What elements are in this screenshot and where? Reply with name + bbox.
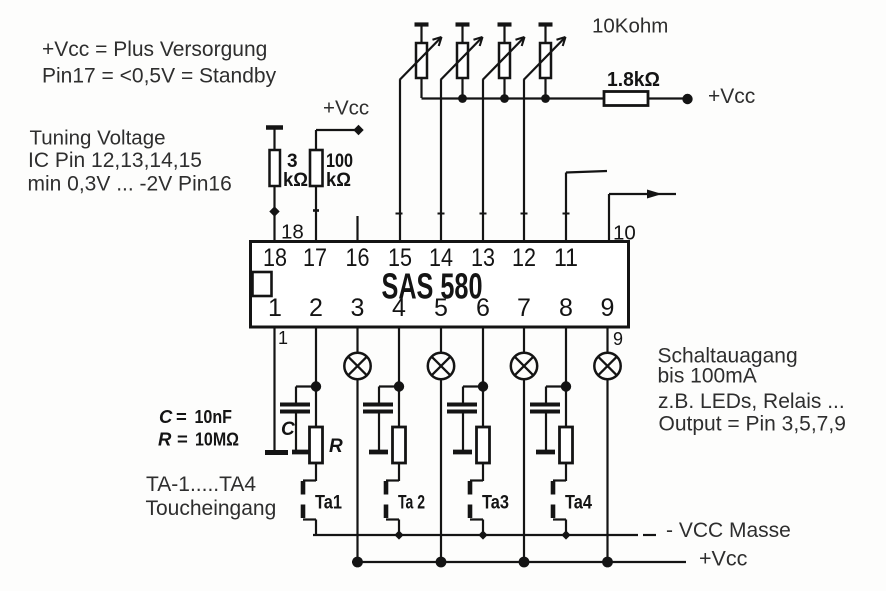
svg-text:18: 18 (281, 221, 304, 244)
svg-text:C: C (281, 419, 295, 440)
svg-text:+Vcc = Plus Versorgung: +Vcc = Plus Versorgung (42, 38, 267, 61)
svg-text:Output = Pin 3,5,7,9: Output = Pin 3,5,7,9 (659, 413, 846, 436)
svg-text:bis 100mA: bis 100mA (658, 365, 757, 388)
svg-text:9: 9 (613, 329, 623, 349)
svg-text:+Vcc: +Vcc (699, 547, 748, 571)
svg-text:11: 11 (554, 244, 578, 272)
svg-text:17: 17 (303, 244, 327, 272)
svg-text:kΩ: kΩ (283, 170, 308, 191)
svg-text:5: 5 (434, 294, 448, 322)
svg-text:1: 1 (278, 328, 288, 348)
svg-text:R=10MΩ: R=10MΩ (158, 429, 239, 450)
svg-text:+Vcc: +Vcc (708, 85, 755, 108)
svg-text:8: 8 (559, 294, 573, 322)
svg-text:9: 9 (601, 294, 615, 322)
svg-text:3: 3 (351, 294, 365, 322)
svg-text:16: 16 (346, 244, 370, 272)
svg-text:10: 10 (613, 222, 636, 245)
svg-text:Ta 2: Ta 2 (398, 492, 425, 514)
svg-text:7: 7 (517, 294, 531, 322)
svg-text:1: 1 (268, 294, 282, 322)
svg-text:100: 100 (326, 151, 353, 172)
svg-text:10Kohm: 10Kohm (592, 14, 668, 37)
svg-text:Ta4: Ta4 (565, 492, 592, 514)
svg-text:1.8kΩ: 1.8kΩ (607, 68, 660, 91)
svg-text:TA-1.....TA4: TA-1.....TA4 (146, 473, 256, 496)
svg-text:- VCC Masse: - VCC Masse (666, 519, 791, 542)
svg-text:Tuning Voltage: Tuning Voltage (30, 127, 166, 150)
svg-text:13: 13 (471, 244, 495, 272)
svg-text:IC Pin 12,13,14,15: IC Pin 12,13,14,15 (28, 149, 202, 172)
svg-text:z.B. LEDs, Relais ...: z.B. LEDs, Relais ... (658, 390, 845, 413)
svg-text:C=10nF: C=10nF (159, 406, 232, 427)
svg-text:15: 15 (388, 244, 412, 272)
svg-text:18: 18 (263, 244, 287, 272)
svg-text:Ta1: Ta1 (315, 492, 342, 514)
svg-text:3: 3 (287, 151, 298, 172)
svg-text:kΩ: kΩ (326, 170, 351, 191)
svg-text:Ta3: Ta3 (482, 492, 509, 514)
svg-text:Toucheingang: Toucheingang (146, 497, 277, 520)
svg-text:min 0,3V ... -2V Pin16: min 0,3V ... -2V Pin16 (28, 173, 232, 196)
svg-text:4: 4 (392, 294, 406, 322)
svg-text:+Vcc: +Vcc (323, 97, 369, 120)
svg-text:6: 6 (476, 294, 490, 322)
svg-text:14: 14 (429, 244, 453, 272)
svg-text:12: 12 (512, 244, 536, 272)
svg-text:R: R (329, 436, 343, 457)
svg-text:2: 2 (309, 294, 323, 322)
svg-text:Pin17 = <0,5V = Standby: Pin17 = <0,5V = Standby (42, 65, 277, 88)
